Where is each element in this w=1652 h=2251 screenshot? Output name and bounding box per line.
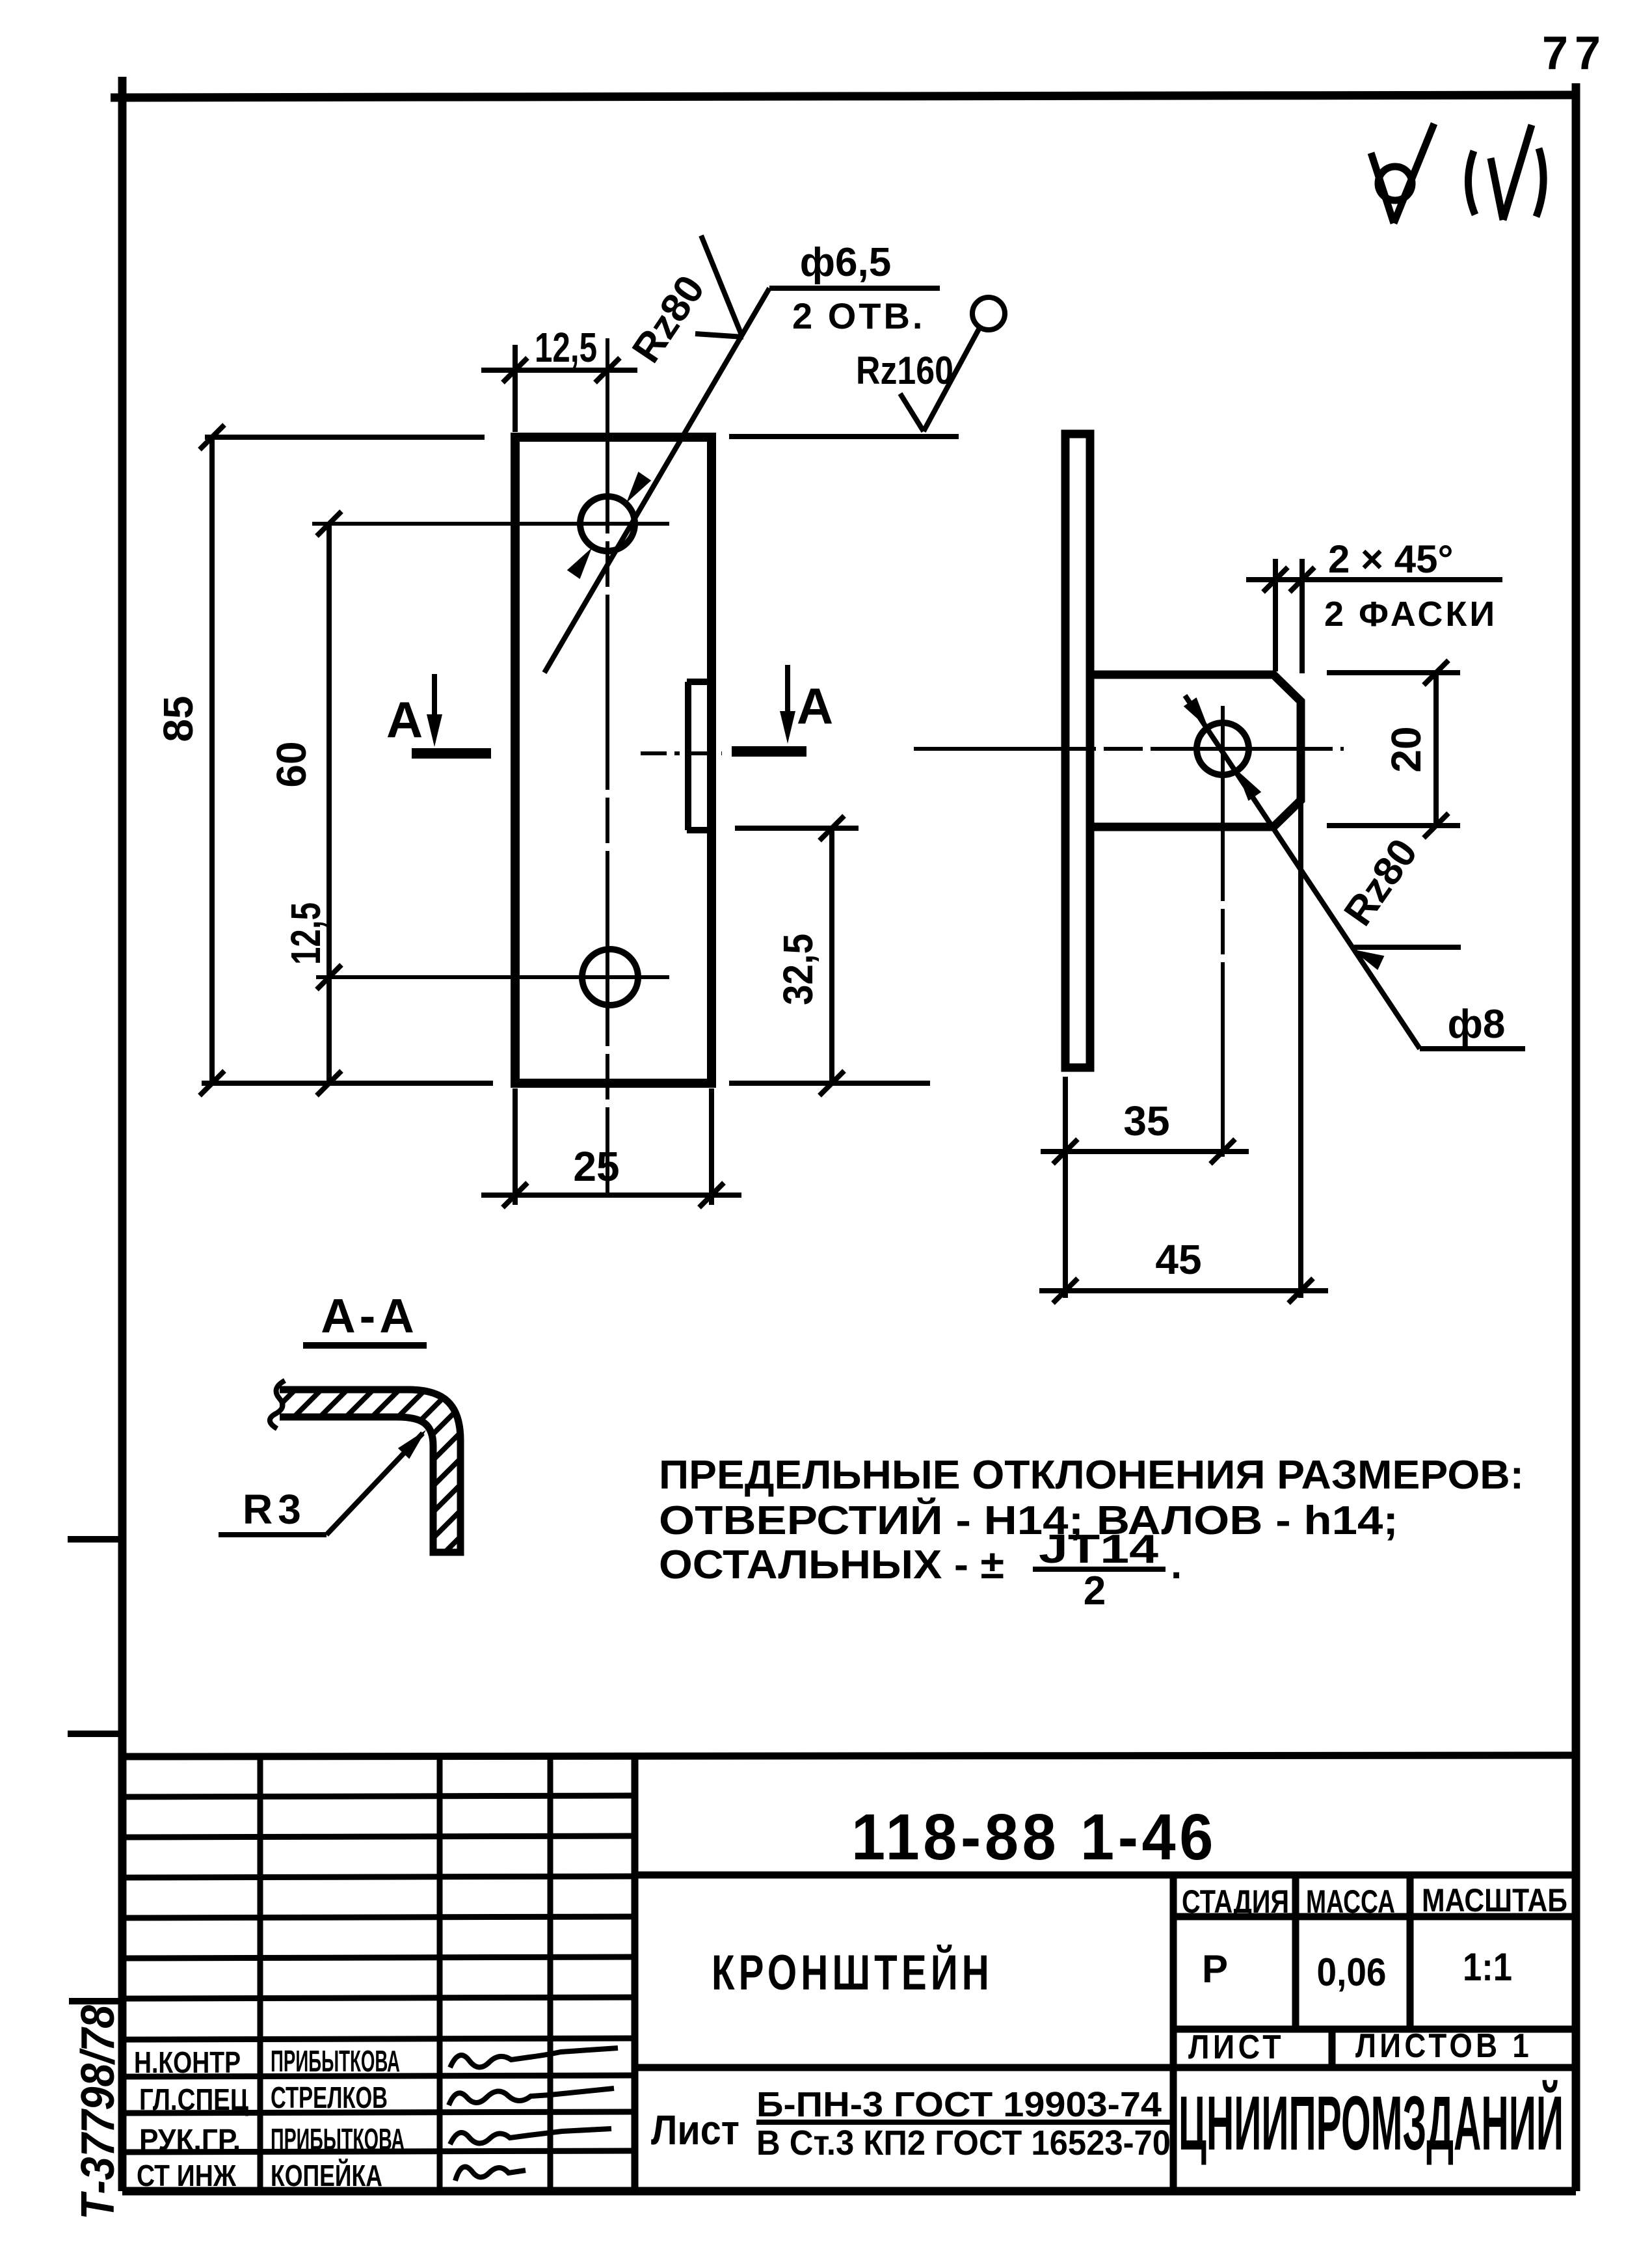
svg-text:2 ОТВ.: 2 ОТВ. (792, 295, 925, 336)
svg-text:35: 35 (1123, 1098, 1169, 1144)
svg-text:Б-ПН-3 ГОСТ 19903-74: Б-ПН-3 ГОСТ 19903-74 (756, 2085, 1162, 2124)
svg-text:A: A (386, 691, 423, 748)
svg-text:25: 25 (573, 1143, 619, 1190)
svg-text:20: 20 (1383, 726, 1430, 772)
svg-text:Н.КОНТР: Н.КОНТР (134, 2045, 241, 2079)
svg-text:В Ст.3 КП2 ГОСТ 16523-70: В Ст.3 КП2 ГОСТ 16523-70 (756, 2123, 1171, 2163)
svg-text:ГЛ.СПЕЦ: ГЛ.СПЕЦ (139, 2083, 248, 2116)
svg-text:R3: R3 (243, 1486, 306, 1533)
svg-text:12,5: 12,5 (282, 902, 329, 965)
svg-text:2 × 45°: 2 × 45° (1328, 537, 1453, 581)
svg-text:КРОНШТЕЙН: КРОНШТЕЙН (712, 1945, 993, 2001)
svg-text:2: 2 (1084, 1569, 1106, 1613)
svg-text:Лист: Лист (651, 2107, 739, 2153)
svg-text:СТ ИНЖ: СТ ИНЖ (137, 2159, 236, 2192)
svg-text:.: . (1171, 1543, 1182, 1587)
svg-text:1:1: 1:1 (1463, 1945, 1512, 1989)
svg-text:ф6,5: ф6,5 (800, 240, 891, 285)
svg-text:0,06: 0,06 (1317, 1950, 1387, 1994)
svg-text:12,5: 12,5 (535, 324, 597, 371)
svg-text:118-88 1-46: 118-88 1-46 (851, 1801, 1217, 1874)
svg-text:Р: Р (1202, 1947, 1228, 1991)
svg-text:A-A: A-A (321, 1289, 418, 1343)
svg-text:ПРИБЫТКОВА: ПРИБЫТКОВА (271, 2122, 405, 2156)
svg-text:2 ФАСКИ: 2 ФАСКИ (1324, 595, 1497, 634)
svg-text:СТРЕЛКОВ: СТРЕЛКОВ (271, 2081, 388, 2114)
svg-text:85: 85 (155, 695, 202, 742)
svg-text:ОСТАЛЬНЫХ - ±: ОСТАЛЬНЫХ - ± (659, 1543, 1004, 1587)
svg-text:РУК.ГР.: РУК.ГР. (139, 2123, 241, 2157)
svg-text:32,5: 32,5 (775, 934, 821, 1005)
svg-text:77: 77 (1542, 27, 1607, 79)
svg-text:СТАДИЯ: СТАДИЯ (1182, 1883, 1289, 1920)
svg-text:ПРЕДЕЛЬНЫЕ ОТКЛОНЕНИЯ РАЗМЕРОВ: ПРЕДЕЛЬНЫЕ ОТКЛОНЕНИЯ РАЗМЕРОВ: (659, 1453, 1524, 1498)
svg-text:ОТВЕРСТИЙ - Н14; ВАЛОВ - h14;: ОТВЕРСТИЙ - Н14; ВАЛОВ - h14; (659, 1498, 1398, 1543)
svg-text:60: 60 (268, 741, 315, 787)
svg-text:ЦНИИПРОМЗДАНИЙ: ЦНИИПРОМЗДАНИЙ (1179, 2079, 1564, 2166)
svg-text:45: 45 (1155, 1236, 1201, 1283)
svg-text:МАСШТАБ: МАСШТАБ (1422, 1882, 1567, 1919)
svg-text:ПРИБЫТКОВА: ПРИБЫТКОВА (271, 2044, 400, 2078)
svg-text:Rz160: Rz160 (856, 349, 953, 392)
svg-text:JТ14: JТ14 (1039, 1527, 1159, 1572)
svg-text:Т-37798/78: Т-37798/78 (72, 2005, 124, 2220)
svg-text:ф8: ф8 (1448, 1002, 1506, 1047)
svg-text:A: A (797, 677, 833, 735)
svg-text:КОПЕЙКА: КОПЕЙКА (271, 2159, 382, 2192)
svg-text:МАССА: МАССА (1306, 1883, 1395, 1920)
svg-text:ЛИСТОВ 1: ЛИСТОВ 1 (1355, 2027, 1532, 2065)
svg-text:ЛИСТ: ЛИСТ (1188, 2029, 1285, 2066)
